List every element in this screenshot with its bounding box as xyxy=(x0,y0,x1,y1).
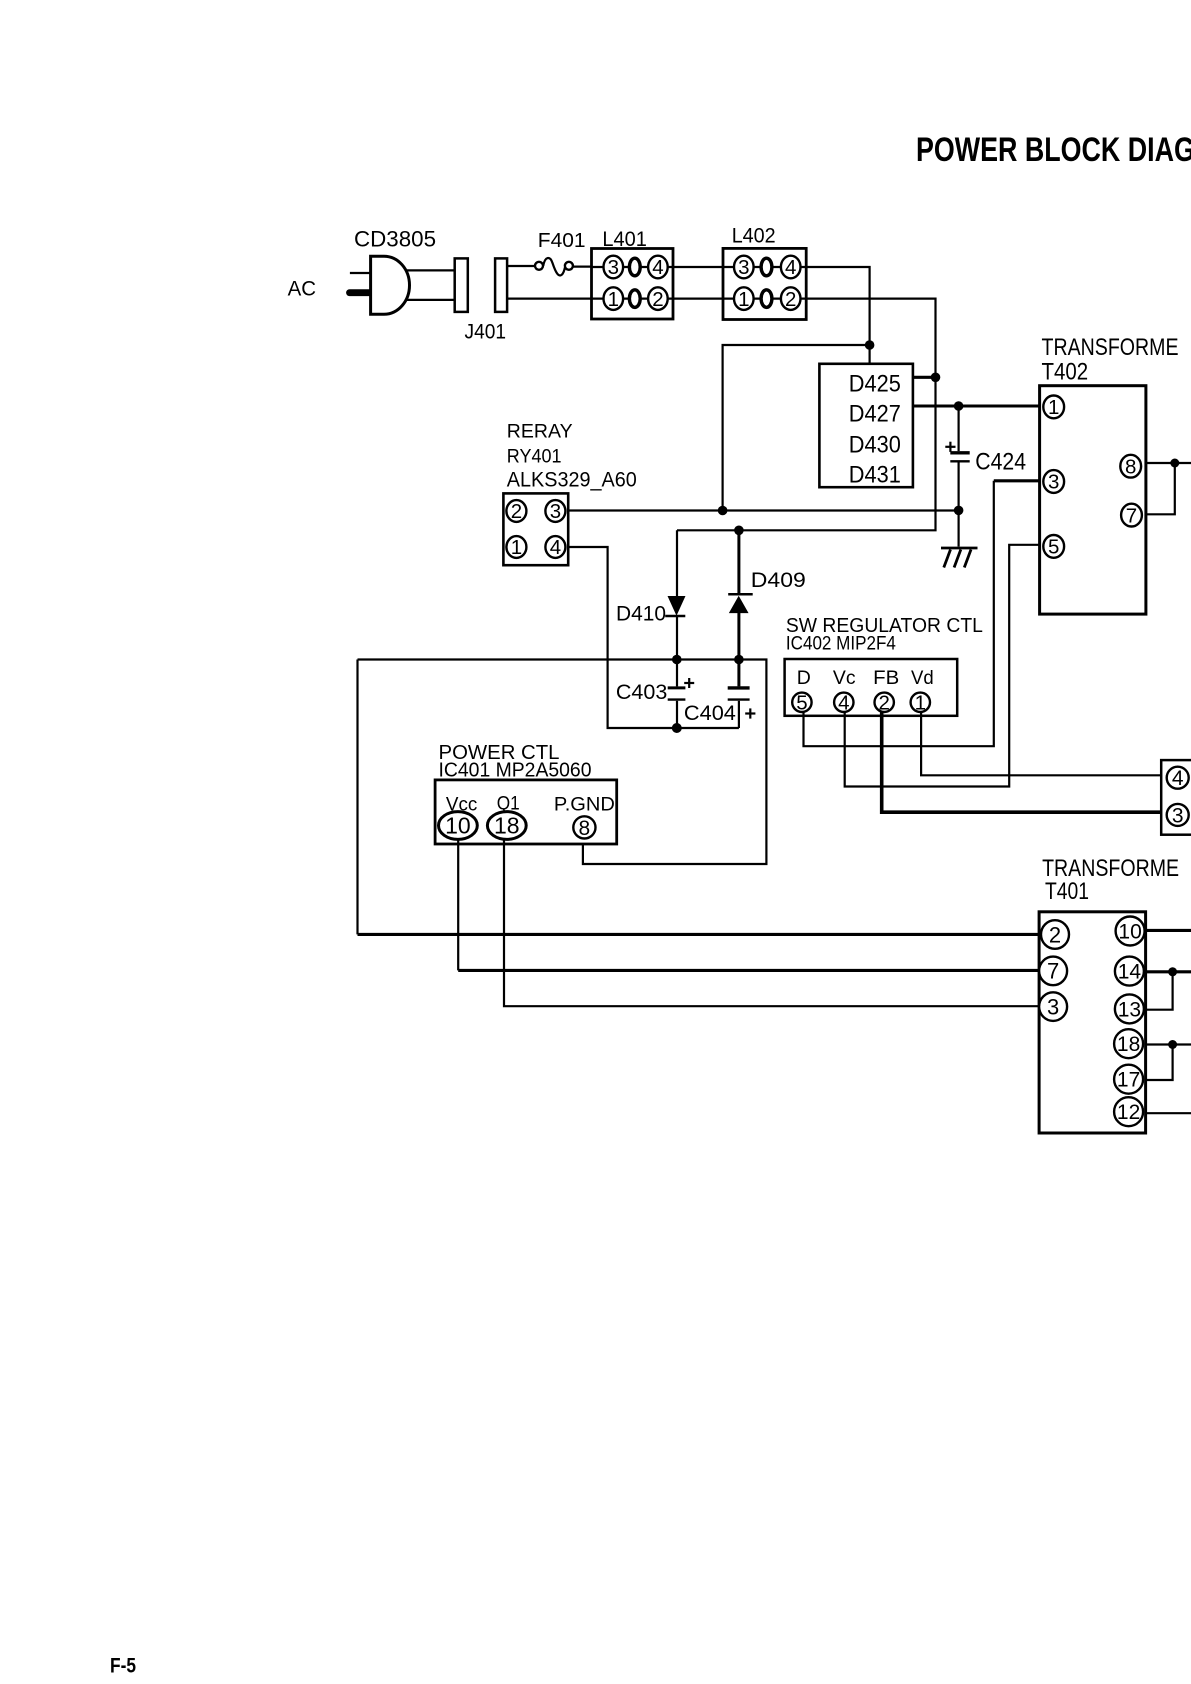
IC401 pin 8 xyxy=(573,816,595,838)
svg-text:4: 4 xyxy=(838,691,849,714)
svg-text:3: 3 xyxy=(1048,471,1059,494)
junction dot xyxy=(1170,459,1179,468)
wire L402 pin2 down to D410/D409 rail xyxy=(677,299,936,531)
T402 pin 7 xyxy=(1121,504,1142,527)
AC plug prong thin xyxy=(350,272,371,274)
wire T401 pin10 out xyxy=(1146,929,1191,932)
transformer T401 box xyxy=(1039,912,1146,1133)
junction dot xyxy=(672,655,682,665)
relay pin 2 xyxy=(506,500,526,522)
svg-text:3: 3 xyxy=(1047,994,1059,1019)
svg-text:D409: D409 xyxy=(751,569,806,592)
wire relay pin3 to C424 net xyxy=(568,509,958,511)
L401 row2 wire xyxy=(592,298,674,300)
T402 pin 8 xyxy=(1120,455,1141,478)
connector J401 bar1 xyxy=(455,258,468,312)
svg-text:5: 5 xyxy=(1048,536,1059,559)
L401 pin 1 xyxy=(604,287,624,310)
connector box right edge xyxy=(1161,760,1191,835)
svg-text:Vc: Vc xyxy=(833,667,856,689)
svg-text:8: 8 xyxy=(579,817,591,840)
L402 row2 wire xyxy=(723,298,806,300)
svg-text:3: 3 xyxy=(550,500,561,523)
svg-text:RERAY: RERAY xyxy=(507,420,573,442)
T401 pin 7 xyxy=(1039,957,1067,986)
T401 pin 14 xyxy=(1115,957,1144,986)
svg-text:1: 1 xyxy=(738,288,749,311)
svg-text:AC: AC xyxy=(288,277,316,301)
relay pin 1 xyxy=(506,536,526,558)
svg-text:10: 10 xyxy=(445,812,471,838)
wire J401 to L401 bottom row xyxy=(507,298,591,300)
svg-text:F401: F401 xyxy=(538,230,586,252)
L402 coil top xyxy=(761,258,772,276)
wire plug to J401 bottom xyxy=(407,299,455,301)
AC plug prong thick xyxy=(350,289,372,296)
diode bridge box D425 D427 D430 D431 xyxy=(819,364,913,487)
svg-text:12: 12 xyxy=(1117,1101,1140,1124)
svg-text:2: 2 xyxy=(511,500,522,523)
L402 pin 4 xyxy=(781,256,801,279)
svg-text:T402: T402 xyxy=(1042,358,1089,385)
svg-text:3: 3 xyxy=(608,256,619,279)
svg-text:1: 1 xyxy=(511,536,522,559)
IC402 pin 2 xyxy=(875,693,894,712)
T402 pin 3 xyxy=(1043,470,1064,493)
svg-text:D: D xyxy=(797,667,811,689)
L401 coil top xyxy=(629,258,640,276)
junction dot xyxy=(718,506,728,516)
wire AC branch to relay net xyxy=(723,345,870,511)
transformer T402 box xyxy=(1040,386,1146,614)
relay RY401 box xyxy=(503,493,568,565)
svg-text:13: 13 xyxy=(1118,998,1141,1021)
svg-text:14: 14 xyxy=(1118,961,1142,984)
junction dot xyxy=(734,655,744,665)
IC402 pin 4 xyxy=(834,693,853,712)
L401 row1 wire xyxy=(592,266,674,268)
junction dot xyxy=(1168,1040,1177,1049)
IC box IC401 xyxy=(435,780,617,844)
AC plug body CD3805 xyxy=(371,256,410,314)
svg-text:2: 2 xyxy=(1049,922,1061,947)
svg-text:D410: D410 xyxy=(616,603,666,626)
svg-text:4: 4 xyxy=(785,256,796,279)
wire T402 pin7 bracket xyxy=(1146,463,1175,514)
svg-text:2: 2 xyxy=(652,288,663,311)
L402 pin 1 xyxy=(734,287,754,310)
capacitor C404 xyxy=(737,660,740,687)
svg-text:5: 5 xyxy=(796,691,807,714)
T402 pin 1 xyxy=(1043,396,1064,419)
svg-text:L402: L402 xyxy=(732,224,776,248)
relay pin 4 xyxy=(545,536,565,558)
wire plug to J401 top xyxy=(407,269,455,271)
svg-text:18: 18 xyxy=(1117,1033,1140,1056)
wire T402 pin8 out xyxy=(1146,462,1191,464)
svg-text:4: 4 xyxy=(1172,767,1184,790)
IC401 pin 18 xyxy=(487,812,526,840)
svg-text:C403: C403 xyxy=(616,681,667,704)
wire bridge out top xyxy=(913,376,936,379)
wire T401 pin13 bracket xyxy=(1146,972,1173,1010)
wire relay pin4 down to cap rail xyxy=(568,547,739,728)
junction dot xyxy=(672,723,682,733)
svg-text:8: 8 xyxy=(1125,455,1136,478)
junction dot xyxy=(931,373,941,383)
wire fuse to L401 xyxy=(573,266,592,268)
connector J401 bar2 xyxy=(495,258,507,312)
svg-text:POWER BLOCK DIAGRAM: POWER BLOCK DIAGRAM xyxy=(916,131,1191,169)
wire T401 pin14 out xyxy=(1146,970,1191,973)
wire T401 pin12 out xyxy=(1146,1112,1191,1114)
L402 row1 wire xyxy=(723,266,806,268)
diode D410 xyxy=(676,530,678,596)
svg-text:P.GND: P.GND xyxy=(554,794,615,816)
wire T401 pin17 bracket xyxy=(1146,1045,1173,1081)
svg-text:2: 2 xyxy=(785,288,796,311)
wire IC402 pin1 Vd to connector 4 xyxy=(921,712,1167,775)
wire J401 to fuse xyxy=(507,265,535,267)
svg-text:10: 10 xyxy=(1118,921,1141,944)
svg-text:1: 1 xyxy=(1048,396,1059,419)
svg-text:D431: D431 xyxy=(849,462,901,489)
svg-text:17: 17 xyxy=(1117,1069,1140,1092)
wire cap rail to IC401 pin8 net xyxy=(358,660,767,865)
wire L401 to L402 top xyxy=(673,266,723,268)
IC401 pin 10 xyxy=(439,812,478,840)
svg-text:1: 1 xyxy=(915,691,926,714)
wire IC402 pin5 to T402 pin3 xyxy=(804,481,994,746)
L401 pin 3 xyxy=(604,256,624,279)
junction dot xyxy=(954,401,964,411)
svg-text:C404: C404 xyxy=(684,702,736,725)
IC402 pin 1 xyxy=(911,693,930,712)
L401 pin 4 xyxy=(648,256,668,279)
L402 pin 2 xyxy=(781,287,801,310)
svg-text:TRANSFORME: TRANSFORME xyxy=(1042,334,1179,361)
svg-text:4: 4 xyxy=(550,536,561,559)
svg-text:ALKS329_A60: ALKS329_A60 xyxy=(507,467,637,491)
wire IC401 pin10 to T401 pin7 xyxy=(457,839,459,970)
wire T401 pin2 rail xyxy=(358,933,1040,936)
IC402 pin 5 xyxy=(792,693,811,712)
L402 pin 3 xyxy=(734,256,754,279)
op-amp/IC box IC402 xyxy=(785,659,958,716)
svg-text:T401: T401 xyxy=(1045,878,1089,905)
svg-text:3: 3 xyxy=(1172,804,1184,827)
svg-text:Vd: Vd xyxy=(911,667,934,689)
wire IC401 pin18 to T401 pin3 xyxy=(504,839,1039,1006)
svg-text:RY401: RY401 xyxy=(507,445,562,467)
svg-text:IC401 MP2A5060: IC401 MP2A5060 xyxy=(439,760,592,782)
T401 pin 2 xyxy=(1041,920,1069,949)
T401 pin 17 xyxy=(1114,1065,1143,1094)
wire IC402 pin4 Vc to T402 pin5 xyxy=(845,545,1040,787)
svg-text:C424: C424 xyxy=(975,449,1026,476)
T401 pin 13 xyxy=(1115,994,1144,1023)
svg-text:F-5: F-5 xyxy=(110,1654,136,1678)
relay pin 3 xyxy=(545,500,565,522)
svg-text:3: 3 xyxy=(738,256,749,279)
T402 pin 5 xyxy=(1043,535,1064,558)
connector pin 4 xyxy=(1167,767,1189,789)
svg-text:7: 7 xyxy=(1047,959,1059,984)
svg-text:IC402 MIP2F4: IC402 MIP2F4 xyxy=(786,632,896,654)
svg-text:1: 1 xyxy=(608,288,619,311)
junction dot xyxy=(1168,967,1177,976)
ground xyxy=(941,547,978,550)
T401 pin 10 xyxy=(1116,917,1145,946)
svg-text:FB: FB xyxy=(873,667,899,689)
svg-text:CD3805: CD3805 xyxy=(354,227,436,252)
svg-text:2: 2 xyxy=(878,691,889,714)
wire T401 pin18 out xyxy=(1146,1043,1191,1045)
svg-text:J401: J401 xyxy=(465,320,507,343)
wire L401 to L402 bottom xyxy=(673,298,723,300)
connector pin 3 xyxy=(1167,804,1189,826)
junction dot xyxy=(954,506,964,516)
svg-text:7: 7 xyxy=(1126,504,1137,527)
T401 pin 18 xyxy=(1114,1029,1143,1058)
wire bridge to T402 pin1 xyxy=(913,404,1040,407)
junction dot xyxy=(865,340,875,350)
wire IC402 pin2 FB to connector 3 xyxy=(882,712,1167,812)
T401 pin 12 xyxy=(1114,1097,1143,1126)
T401 pin 3 xyxy=(1039,992,1067,1021)
capacitor C424 xyxy=(957,406,959,451)
wire L402 pin4 to bridge input xyxy=(806,267,869,364)
L402 coil bottom xyxy=(761,290,772,308)
svg-text:D430: D430 xyxy=(849,431,901,458)
L401 coil bottom xyxy=(629,290,640,308)
L401 pin 2 xyxy=(648,287,668,310)
svg-text:18: 18 xyxy=(494,812,520,838)
svg-text:D425: D425 xyxy=(849,370,901,397)
wire left drop to T401 pin2 rail xyxy=(356,660,358,935)
capacitor C403 xyxy=(676,660,678,687)
svg-text:D427: D427 xyxy=(849,401,901,428)
svg-text:4: 4 xyxy=(652,256,663,279)
